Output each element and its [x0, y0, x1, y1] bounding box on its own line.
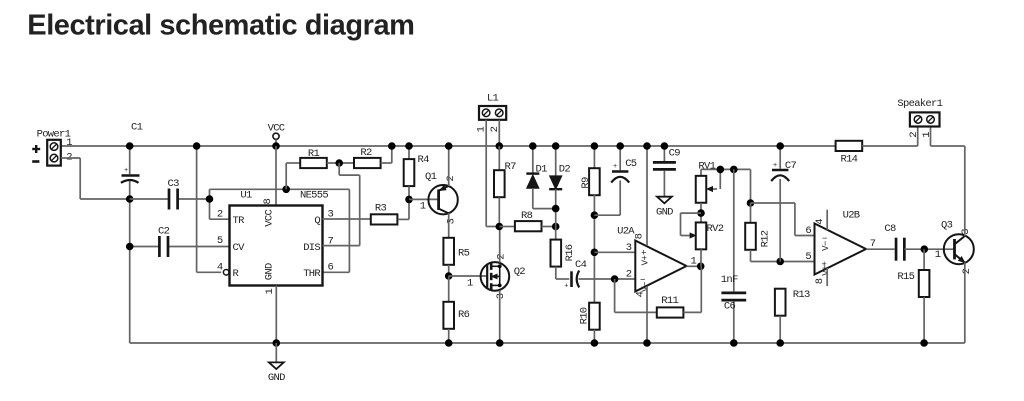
connector Power1: [32, 129, 72, 166]
svg-text:4: 4: [217, 262, 223, 274]
resistor R11: [657, 295, 684, 318]
junction RV1/RV2 node: [697, 209, 705, 217]
junction R9 bottom / C5: [591, 211, 599, 219]
wire R1-R2: [327, 162, 354, 164]
svg-text:8: 8: [634, 233, 646, 239]
wire U1 pin1 GND: [275, 286, 277, 344]
capacitor C4: [564, 259, 635, 290]
junction D1/D2 cathodes: [552, 205, 560, 213]
svg-text:6: 6: [805, 225, 811, 237]
svg-text:3: 3: [626, 242, 632, 254]
svg-text:VCC: VCC: [263, 210, 275, 227]
U2B pin8 power stub: [826, 268, 828, 286]
wire R14 right to Speaker pin2: [862, 127, 918, 147]
junction C7 on VCC rail: [776, 142, 784, 150]
op-amp U2A: [617, 226, 696, 298]
op IC U1 NE555 body: [230, 190, 329, 286]
wire R3 right to R4 bottom: [398, 199, 409, 219]
svg-text:2: 2: [217, 208, 223, 220]
svg-text:1: 1: [420, 200, 426, 212]
svg-text:Speaker1: Speaker1: [897, 98, 942, 110]
resistor R13: [775, 289, 810, 343]
svg-text:1: 1: [467, 277, 473, 289]
junction C8/Q3 base/R15: [921, 245, 929, 253]
resistor R4: [404, 146, 429, 199]
wire L1 pin2 to VCC rail: [498, 120, 500, 146]
resistor R10: [579, 303, 600, 343]
wire U2A pin8 power to VCC rail: [646, 146, 648, 246]
svg-text:U1: U1: [240, 190, 252, 202]
svg-text:C1: C1: [131, 122, 143, 134]
svg-text:V+: V+: [821, 266, 831, 276]
wire RV1 bottom to RV2: [700, 203, 702, 223]
capacitor C7: [771, 146, 796, 262]
wire U1 pin4 reset to VCC: [197, 146, 222, 272]
svg-text:L1: L1: [487, 92, 499, 104]
wire THR drop to U1 pin6: [323, 189, 350, 272]
svg-text:2: 2: [961, 268, 973, 274]
wire feedback pin2 to R11: [615, 279, 657, 312]
svg-text:V−: V−: [821, 241, 831, 251]
transistor Q3: [935, 220, 974, 275]
resistor R6: [443, 276, 469, 343]
wire U2B output to C8: [866, 248, 895, 250]
svg-text:R14: R14: [840, 154, 857, 166]
wire Q1 collector to VCC rail: [448, 146, 450, 186]
svg-text:R7: R7: [505, 161, 517, 173]
wire VCC top rail: [61, 145, 836, 147]
junction C2 left on GND drop: [126, 243, 134, 251]
svg-text:R8: R8: [521, 210, 533, 222]
junction R5/R6/Q2 gate: [445, 272, 453, 280]
svg-text:R1: R1: [308, 148, 320, 160]
svg-text:Electrical schematic diagram: Electrical schematic diagram: [27, 10, 414, 42]
wire Speaker pin1 to Q3 collector: [931, 127, 965, 147]
svg-text:DIS: DIS: [303, 242, 320, 254]
junction C6 on GND rail: [730, 339, 738, 347]
svg-text:V+: V+: [640, 256, 650, 266]
svg-text:R15: R15: [897, 271, 914, 283]
wire R5 bottom to gate node: [448, 265, 450, 276]
wire left GND drop from C1 node: [129, 199, 131, 343]
junction L1 pin2/R7 on rail: [496, 142, 504, 150]
svg-text:4: 4: [635, 291, 647, 297]
svg-text:C4: C4: [575, 259, 587, 271]
svg-text:R13: R13: [793, 289, 810, 301]
resistor R7: [494, 146, 516, 227]
svg-text:Q2: Q2: [514, 266, 526, 278]
svg-text:3: 3: [960, 229, 972, 235]
diode D2: [549, 146, 570, 240]
svg-text:R3: R3: [375, 203, 387, 215]
svg-text:C6: C6: [724, 301, 736, 313]
svg-text:NE555: NE555: [300, 190, 328, 202]
wire U1 pin2 TR: [210, 218, 230, 220]
resistor R1: [300, 148, 327, 168]
wire DIS path: [323, 163, 360, 246]
svg-text:Q1: Q1: [425, 171, 437, 183]
svg-text:R11: R11: [661, 295, 678, 307]
junction reset wire on VCC rail: [193, 142, 201, 150]
transistor Q2 MOSFET: [481, 254, 526, 300]
resistor R15: [897, 249, 929, 343]
svg-text:6: 6: [328, 262, 334, 274]
svg-text:Q: Q: [314, 215, 320, 227]
junction D2 on VCC rail: [552, 142, 560, 150]
ground symbol GND main: [268, 343, 285, 384]
svg-text:R4: R4: [418, 154, 430, 166]
svg-text:RV2: RV2: [707, 223, 724, 235]
resistor R8: [499, 210, 555, 231]
wire RV2 bottom to output node: [700, 249, 702, 266]
wire TR node vertical: [209, 189, 211, 219]
svg-text:+: +: [613, 163, 617, 171]
wire U1 pin3 Q output: [323, 218, 371, 220]
svg-text:C3: C3: [168, 178, 180, 190]
wire Q2 gate: [449, 276, 487, 289]
svg-text:R6: R6: [458, 309, 470, 321]
svg-text:3: 3: [446, 218, 458, 224]
junction D1 on VCC rail: [529, 142, 537, 150]
svg-text:R12: R12: [760, 230, 772, 247]
svg-text:Q3: Q3: [941, 220, 953, 232]
junction U2A pin4 on GND rail: [643, 339, 651, 347]
svg-text:1: 1: [935, 249, 941, 261]
svg-text:GND: GND: [263, 263, 275, 280]
junction RV1 wiper tie: [717, 166, 725, 174]
ground symbol GND at C9: [656, 197, 673, 219]
resistor R16: [551, 240, 577, 279]
svg-text:C8: C8: [884, 223, 896, 235]
diode D1: [526, 146, 555, 209]
resistor R3: [371, 203, 398, 225]
capacitor C9: [653, 146, 680, 197]
svg-text:8: 8: [262, 199, 274, 205]
potentiometer RV1: [696, 161, 721, 203]
junction R7/L1/R8/Q2 drain: [496, 223, 504, 231]
svg-text:C7: C7: [785, 160, 797, 172]
svg-text:C9: C9: [669, 148, 681, 160]
op-amp U2B: [805, 210, 875, 285]
svg-text:RV1: RV1: [698, 161, 715, 173]
junction R1 left / timing node: [282, 186, 290, 194]
svg-text:2: 2: [908, 132, 920, 138]
resistor R9: [580, 146, 600, 303]
svg-text:GND: GND: [268, 372, 285, 384]
svg-text:8: 8: [814, 278, 826, 284]
junction Q1 collector on rail: [445, 142, 453, 150]
svg-text:D2: D2: [559, 163, 571, 175]
wire Q3 emitter down to GND rail: [964, 262, 966, 343]
svg-text:2: 2: [496, 254, 508, 260]
junction R13 on GND rail: [776, 339, 784, 347]
wire R2 right to VCC rail: [381, 146, 392, 163]
junction C1 bottom node: [126, 195, 134, 203]
connector Speaker1: [897, 98, 942, 138]
svg-text:R10: R10: [579, 307, 591, 324]
wire RV1 net corner to R12/C7 node: [750, 169, 752, 203]
junction R4 on VCC rail: [405, 142, 413, 150]
potentiometer RV2: [681, 213, 724, 249]
power symbol VCC: [268, 123, 285, 147]
wire Q2 drain: [499, 227, 501, 263]
svg-text:C2: C2: [158, 226, 170, 238]
wire GND bottom rail: [130, 342, 965, 344]
svg-text:VCC: VCC: [268, 123, 285, 135]
junction R1/R2/DIS: [335, 159, 343, 167]
svg-text:+: +: [564, 282, 568, 290]
wire R1 left leg: [286, 163, 300, 189]
svg-text:R5: R5: [458, 248, 470, 260]
junction R10 on GND rail: [591, 339, 599, 347]
resistor R2: [354, 147, 381, 168]
wire L1 pin1 down to Q2 drain node: [486, 120, 499, 227]
wire Power1 pin2 to GND net: [61, 158, 130, 199]
svg-text:+: +: [773, 162, 777, 170]
junction U1 GND on rail: [273, 339, 281, 347]
capacitor C3: [130, 178, 210, 210]
junction U2A output node: [697, 263, 705, 271]
wire TR-THR link horizontal: [210, 188, 350, 190]
capacitor C1: [121, 122, 143, 200]
U2B pin4 power stub: [826, 210, 828, 230]
wire U2A pin2 row junction: [611, 275, 619, 283]
wire U2A pin4 power to GND rail: [646, 286, 648, 343]
svg-text:D1: D1: [536, 163, 548, 175]
svg-text:3: 3: [495, 293, 507, 299]
junction TR node: [206, 195, 214, 203]
svg-text:CV: CV: [233, 242, 246, 254]
svg-text:V−: V−: [640, 282, 650, 292]
U1 pin4 inversion circle: [223, 270, 229, 276]
svg-text:5: 5: [805, 251, 811, 263]
svg-text:GND: GND: [656, 207, 673, 219]
svg-text:R2: R2: [360, 147, 372, 159]
wire Q3 collector up to Speaker pin1: [964, 146, 966, 236]
junction C1 top on VCC rail: [126, 142, 134, 150]
capacitor C5: [594, 146, 636, 215]
junction R9 on VCC rail: [591, 142, 599, 150]
junction C5 on VCC rail: [616, 142, 624, 150]
resistor R12: [745, 203, 771, 262]
junction VCC on rail: [272, 142, 280, 150]
connector L1: [476, 92, 507, 132]
resistor R14: [836, 141, 863, 166]
resistor R5: [443, 238, 469, 265]
junction R4 bottom / Q1 base: [405, 196, 413, 204]
wire U1 pin8 VCC: [275, 146, 277, 206]
transistor Q1: [409, 171, 458, 224]
junction R15 on GND rail: [920, 339, 928, 347]
wire RV1 top net: [701, 168, 751, 170]
svg-text:4: 4: [814, 219, 826, 225]
wire U2B pin5 row: [751, 261, 815, 263]
svg-text:C5: C5: [625, 158, 637, 170]
svg-text:2: 2: [626, 269, 632, 281]
wire R11 right to output: [683, 266, 701, 312]
svg-text:U2B: U2B: [843, 210, 860, 222]
junction R2 on VCC rail: [388, 142, 396, 150]
junction R12 top node: [747, 199, 755, 207]
svg-text:1: 1: [921, 132, 933, 138]
capacitor C6: [721, 169, 746, 343]
capacitor C8: [884, 223, 953, 261]
page title: [27, 10, 414, 42]
svg-text:TR: TR: [233, 215, 246, 227]
svg-text:5: 5: [217, 235, 223, 247]
svg-text:1: 1: [264, 289, 276, 295]
U1 pin numbers: [217, 199, 334, 295]
wire U2A pin3 row: [594, 251, 635, 253]
junction Q2 source on rail: [496, 339, 504, 347]
junction R9 line / U2A pin3: [591, 249, 599, 257]
svg-text:THR: THR: [303, 268, 321, 280]
capacitor C2: [130, 226, 230, 258]
wire node to U2B pin6: [751, 203, 815, 236]
svg-text:2: 2: [445, 176, 457, 182]
junction R8 right / D-node: [552, 223, 560, 231]
junction R6 on GND rail: [445, 339, 453, 347]
wire U2A output: [687, 265, 701, 267]
svg-text:+: +: [124, 167, 128, 175]
wire Q2 source to GND rail: [499, 290, 501, 343]
svg-text:R9: R9: [580, 177, 592, 189]
junction C9 on VCC rail: [661, 142, 669, 150]
junction pin5 row / C7-R13: [776, 258, 784, 266]
svg-text:1nF: 1nF: [721, 274, 738, 286]
svg-text:1: 1: [66, 137, 72, 149]
junction U2A pin8 on rail: [643, 142, 651, 150]
junction C6 drop tie: [730, 166, 738, 174]
wire Q1 emitter to R5: [448, 213, 450, 238]
